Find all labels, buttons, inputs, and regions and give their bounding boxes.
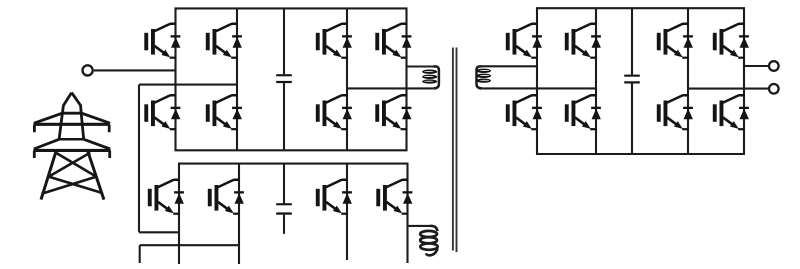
capacitor C2 top plate [276, 203, 292, 205]
terminal T3 [769, 84, 779, 94]
winding L3 spine [477, 66, 483, 88]
winding L1 top wire [407, 65, 435, 67]
wire next cascade vertical [139, 245, 141, 263]
IGBT Q8 [375, 95, 411, 129]
winding L1 turn slits [424, 71, 434, 82]
IGBT Q13 [506, 24, 542, 58]
module 1 leg 2 [236, 8, 238, 150]
winding L2 top wire [408, 225, 432, 227]
module 2 leg 2 [238, 164, 240, 264]
module 3 capacitor branch bottom lead [631, 84, 633, 155]
IGBT Q4 [375, 24, 411, 58]
terminal T2 [769, 61, 779, 71]
module 1 top rail [175, 7, 408, 9]
IGBT Q1 [144, 24, 180, 58]
capacitor C1 [276, 74, 292, 83]
module 1 bottom rail [175, 149, 408, 151]
IGBT Q18 [565, 95, 601, 129]
wire cascade bus vertical [138, 85, 140, 233]
IGBT Q14 [565, 24, 601, 58]
module 1 leg 3 [346, 8, 348, 150]
winding L2 turn 2 [420, 237, 437, 243]
wire T1 to module1 leg1 midpoint [94, 69, 176, 71]
IGBT Q11 [316, 180, 352, 214]
wire module1 leg2 midpoint to cascade bus [139, 84, 237, 86]
IGBT Q19 [657, 95, 693, 129]
IGBT Q2 [206, 24, 242, 58]
module 3 leg 2 [595, 8, 597, 154]
winding L2 turn 1 [420, 231, 437, 237]
winding L1 bottom wire [347, 87, 433, 89]
winding L3 bottom wire [482, 87, 596, 89]
IGBT Q15 [657, 24, 693, 58]
module 2 top rail [178, 163, 409, 165]
capacitor C2 bottom plate [276, 212, 292, 214]
module 2 leg 1 [178, 164, 180, 264]
winding L2 entry hook [430, 226, 437, 231]
module 1 leg 1 [174, 8, 176, 150]
IGBT Q9 [148, 180, 184, 214]
wire module2 leg2 midpoint to next cascade [140, 244, 239, 246]
winding L3 turn slits [480, 70, 490, 81]
module 3 capacitor branch top lead [631, 8, 633, 75]
IGBT Q10 [208, 180, 244, 214]
terminal T1 (grid connection) [83, 65, 93, 75]
transformer core [453, 48, 457, 253]
module 1 capacitor branch top lead [283, 8, 285, 74]
winding L2 turn 3 [420, 243, 437, 249]
winding L2 exit tail [426, 248, 437, 255]
module 2 leg 4 [406, 164, 408, 263]
winding L1 turns [422, 70, 437, 84]
module 3 leg 3 [687, 8, 689, 154]
IGBT Q12 [376, 180, 412, 214]
module 2 leg 3 [346, 164, 348, 260]
module 3 leg 1 [536, 8, 538, 154]
IGBT Q7 [316, 95, 352, 129]
wire cascade bus to module2 leg1 midpoint [139, 231, 179, 233]
module 2 capacitor branch top lead [283, 164, 285, 204]
IGBT Q5 [144, 95, 180, 129]
wire module3 leg4 midpoint to terminal T2 [744, 65, 769, 67]
IGBT Q16 [713, 24, 749, 58]
IGBT Q6 [206, 95, 242, 129]
IGBT Q20 [713, 95, 749, 129]
IGBT Q3 [316, 24, 352, 58]
winding L3 top wire [480, 65, 538, 67]
capacitor C3 [624, 75, 640, 84]
module 1 leg 4 [405, 8, 407, 150]
IGBT Q17 [506, 95, 542, 129]
module 3 leg 4 [743, 8, 745, 154]
wire module3 leg3 midpoint to terminal T3 [688, 88, 769, 90]
winding L1 spine [433, 66, 439, 88]
winding L3 turns [476, 69, 491, 83]
module 3 top rail [536, 7, 745, 9]
grid tower [33, 93, 110, 200]
module 2 capacitor bottom lead [283, 215, 285, 234]
module 1 capacitor branch bottom lead [283, 83, 285, 150]
module 3 bottom rail [536, 153, 745, 155]
